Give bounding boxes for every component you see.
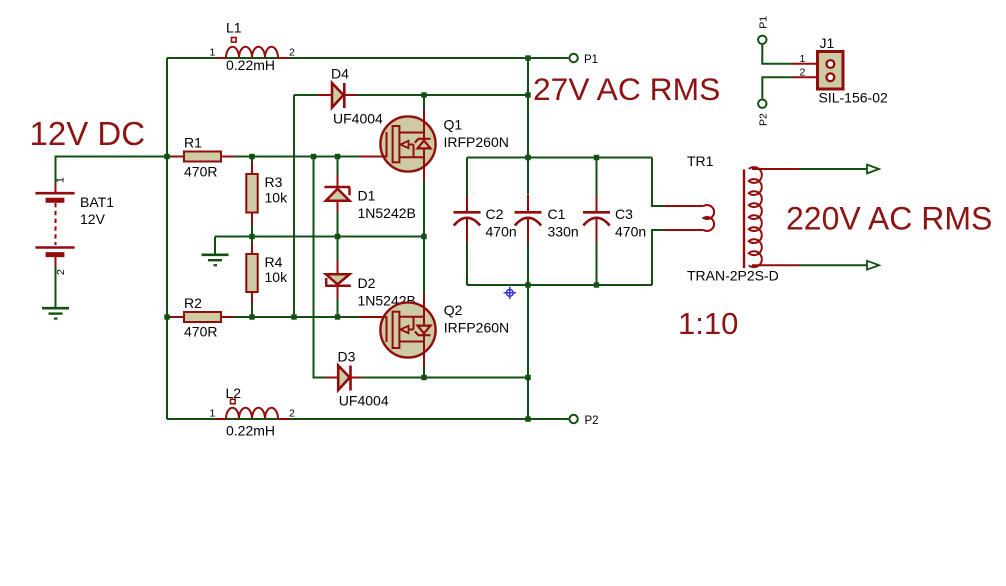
svg-text:220V AC RMS: 220V AC RMS	[786, 201, 992, 237]
terminal P2 bottom rail	[569, 415, 577, 423]
svg-text:C2: C2	[486, 206, 504, 222]
wire TR1 primary bottom lead	[652, 230, 664, 285]
svg-text:0.22mH: 0.22mH	[226, 423, 275, 439]
svg-text:10k: 10k	[265, 269, 289, 285]
capacitor C1	[515, 195, 542, 242]
wire x528 column lower	[527, 242, 529, 420]
terminal P1 at J1	[758, 36, 766, 44]
svg-text:12V DC: 12V DC	[30, 115, 146, 152]
svg-text:330n: 330n	[548, 224, 579, 240]
wire mid rail y236.5	[215, 236, 424, 238]
svg-text:470R: 470R	[184, 164, 217, 180]
wire battery minus to ground	[55, 267, 57, 308]
svg-text:IRFP260N: IRFP260N	[444, 134, 509, 150]
wire bottom rail to P2	[167, 418, 568, 420]
wire TR1 secondary bottom output	[799, 264, 867, 266]
wire R2 gate rail	[167, 316, 359, 318]
svg-text:C3: C3	[615, 206, 633, 222]
wire 12V rail left vertical	[166, 58, 168, 419]
wire J1 pin1 from P1 terminal	[762, 45, 792, 64]
svg-text:470n: 470n	[486, 224, 517, 240]
wire top rail to P1	[167, 57, 568, 59]
connector J1	[792, 52, 843, 90]
svg-text:Q1: Q1	[444, 117, 463, 133]
junction node dots	[164, 55, 599, 421]
inductor L2	[215, 399, 290, 419]
wire x528 column upper	[527, 58, 529, 195]
wire TR1 secondary top output	[799, 168, 867, 170]
svg-text:D2: D2	[358, 275, 376, 291]
battery BAT1	[35, 183, 74, 267]
svg-text:UF4004: UF4004	[339, 393, 389, 409]
zener diode D2	[325, 261, 351, 300]
svg-text:27V AC RMS: 27V AC RMS	[533, 71, 720, 107]
svg-text:TRAN-2P2S-D: TRAN-2P2S-D	[687, 268, 779, 284]
svg-text:L2: L2	[226, 385, 242, 401]
svg-text:10k: 10k	[265, 190, 289, 206]
wire J1 pin2 from P2 terminal	[762, 77, 792, 98]
svg-text:1: 1	[55, 177, 67, 183]
svg-text:R4: R4	[265, 254, 283, 270]
svg-text:J1: J1	[820, 35, 835, 51]
wire Q2 drain from mid rail	[423, 237, 425, 295]
svg-text:BAT1: BAT1	[80, 194, 114, 210]
diode D4	[318, 83, 357, 108]
resistor R4	[246, 243, 257, 304]
svg-text:2: 2	[800, 67, 806, 79]
mosfet Q1	[359, 108, 436, 181]
svg-text:D4: D4	[331, 66, 349, 82]
svg-text:1:10: 1:10	[678, 306, 738, 341]
svg-text:P1: P1	[758, 16, 770, 29]
resistor R1	[171, 152, 234, 162]
svg-text:C1: C1	[548, 206, 566, 222]
resistor R2	[171, 312, 234, 322]
capacitor C2	[454, 195, 481, 242]
svg-text:D3: D3	[338, 349, 356, 365]
diode D3	[326, 366, 362, 391]
capacitor C3	[583, 195, 610, 242]
wire C2 column	[466, 158, 468, 286]
svg-text:R3: R3	[265, 174, 283, 190]
resistor R3	[246, 162, 257, 225]
terminal P1 top rail	[569, 54, 577, 62]
wire Q1 drain from rail	[423, 95, 425, 110]
svg-text:P2: P2	[585, 415, 599, 427]
ground mid rail	[202, 255, 229, 265]
svg-text:TR1: TR1	[687, 153, 714, 169]
wire D3 anode drop x313.5	[314, 157, 327, 378]
svg-text:1: 1	[210, 408, 216, 420]
svg-text:Q2: Q2	[444, 302, 463, 318]
svg-text:IRFP260N: IRFP260N	[444, 320, 509, 336]
wire R1 gate rail	[167, 156, 359, 158]
wire cap bottom rail	[467, 284, 652, 286]
svg-text:470R: 470R	[184, 324, 217, 340]
inductor L1	[215, 38, 290, 59]
ground under battery	[42, 308, 69, 318]
wire R3 R4 column x252	[251, 157, 253, 318]
svg-text:D1: D1	[358, 188, 376, 204]
zener diode D1	[324, 175, 350, 212]
wire D1 D2 column x337.5	[337, 157, 339, 318]
svg-text:470n: 470n	[615, 224, 646, 240]
wire battery plus to rail	[56, 157, 168, 184]
svg-text:1N5242B: 1N5242B	[358, 205, 416, 221]
wire Q1 source to mid rail	[423, 180, 425, 237]
wire D4 anode drop x294	[293, 95, 295, 317]
svg-text:R1: R1	[184, 135, 202, 151]
terminal P2 at J1	[758, 100, 766, 108]
svg-text:R2: R2	[184, 295, 202, 311]
svg-text:12V: 12V	[80, 211, 106, 227]
wire cap top rail	[467, 157, 652, 159]
output arrow bottom	[867, 261, 879, 270]
wire D4 top rail y95	[294, 94, 528, 96]
wire Q2 source to rail y377	[423, 366, 425, 378]
wire D3 rail y377	[361, 377, 528, 379]
wire C3 column	[596, 158, 598, 286]
svg-text:2: 2	[289, 47, 295, 59]
mosfet Q2	[359, 294, 436, 367]
svg-text:UF4004: UF4004	[333, 111, 383, 127]
svg-text:1: 1	[210, 47, 216, 59]
svg-text:0.22mH: 0.22mH	[226, 57, 275, 73]
wire TR1 primary top lead	[652, 158, 664, 207]
svg-text:1: 1	[800, 53, 806, 65]
svg-text:2: 2	[289, 408, 295, 420]
wire ground stem mid	[214, 237, 216, 255]
svg-text:2: 2	[55, 269, 67, 275]
origin marker blue crosshair	[504, 287, 516, 299]
svg-text:P1: P1	[584, 54, 598, 66]
transformer TR1	[664, 167, 799, 268]
svg-text:P2: P2	[758, 113, 770, 126]
svg-text:L1: L1	[226, 20, 242, 36]
svg-text:SIL-156-02: SIL-156-02	[819, 90, 888, 106]
output arrow top	[867, 165, 879, 174]
